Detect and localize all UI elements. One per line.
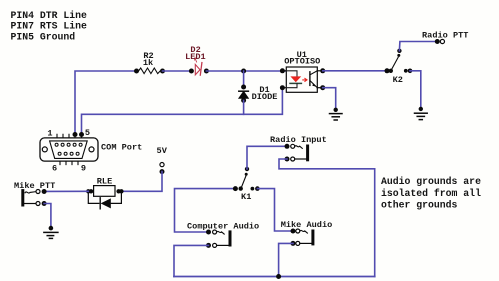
svg-text:1: 1 <box>47 129 52 139</box>
ground K2 <box>415 107 428 120</box>
svg-text:Radio PTT: Radio PTT <box>422 31 468 41</box>
relay contact K2 <box>385 49 413 85</box>
terminal Radio PTT <box>422 31 468 44</box>
optoisolator U1 <box>282 50 322 92</box>
terminal 5V <box>157 146 168 174</box>
relay contact K1 <box>233 167 260 202</box>
svg-text:LED1: LED1 <box>185 52 206 62</box>
wire D1 to RTS line <box>243 100 245 114</box>
wire U1 emitter to ground <box>323 88 336 110</box>
svg-text:K2: K2 <box>393 75 403 85</box>
jack Mike PTT <box>14 181 55 206</box>
svg-text:1k: 1k <box>143 58 153 68</box>
svg-text:K1: K1 <box>241 192 251 202</box>
wire U1 collector to K2 common <box>323 70 387 72</box>
wire K1 NC up to Radio Input tip <box>247 146 287 169</box>
svg-text:9: 9 <box>81 163 86 173</box>
svg-text:DIODE: DIODE <box>252 92 278 102</box>
svg-text:Radio Input: Radio Input <box>270 135 327 145</box>
wire Mike PTT sleeve to ground <box>44 204 51 229</box>
jack Mike Audio <box>281 220 333 246</box>
svg-text:PIN4 DTR Line: PIN4 DTR Line <box>11 10 88 21</box>
svg-text:COM Port: COM Port <box>101 142 142 152</box>
note PIN list <box>11 10 88 43</box>
wire Computer Audio sleeve down to rail <box>174 245 209 276</box>
relay coil RLE <box>86 176 124 208</box>
svg-text:Mike PTT: Mike PTT <box>14 181 55 191</box>
svg-text:5: 5 <box>85 128 90 138</box>
connector COM Port DB9 <box>40 128 142 173</box>
svg-text:Computer Audio: Computer Audio <box>187 222 259 232</box>
svg-text:RLE: RLE <box>97 176 112 186</box>
node U1 collector pin <box>320 68 325 73</box>
wire R2 to D2 <box>163 70 192 72</box>
wire K1 common loop to Computer Audio tip <box>175 189 236 232</box>
svg-text:Mike Audio: Mike Audio <box>281 220 333 230</box>
wire Mike Audio sleeve down to rail <box>279 243 293 276</box>
svg-text:6: 6 <box>52 163 57 173</box>
node COM pin5 <box>79 132 84 137</box>
node junction D1 top <box>241 69 246 74</box>
LED D2 <box>185 45 209 75</box>
svg-text:isolated from all: isolated from all <box>381 188 481 199</box>
wire 5V to RLE <box>121 172 162 192</box>
svg-text:PIN5 Ground: PIN5 Ground <box>11 31 76 42</box>
wire Radio Input sleeve right loop down <box>279 159 375 277</box>
svg-text:5V: 5V <box>157 146 168 156</box>
jack Radio Input <box>270 135 327 161</box>
svg-text:other grounds: other grounds <box>381 200 458 211</box>
ground Mike PTT <box>44 226 58 239</box>
svg-text:PIN7 RTS Line: PIN7 RTS Line <box>11 21 88 32</box>
wire Mike PTT tip to RLE <box>44 190 88 192</box>
wire bottom rail <box>174 276 375 278</box>
wire DTR: COM pin4 up and across to R2 <box>75 71 136 134</box>
wire K2 NC to Radio PTT <box>399 42 437 51</box>
node COM pin4 <box>73 132 78 137</box>
diode D1 <box>239 85 278 103</box>
wire D2 to U1 anode pin <box>206 70 286 72</box>
node rail junction <box>276 274 281 279</box>
wire RTS: COM pin5 up, across to U1 cathode <box>82 88 283 135</box>
ground U1 emitter <box>330 108 343 120</box>
jack Computer Audio <box>187 222 259 248</box>
svg-text:OPTOISO: OPTOISO <box>284 57 320 67</box>
node U1 cathode pin <box>280 85 285 90</box>
resistor R2 1k <box>134 51 165 73</box>
note Audio grounds <box>381 176 481 211</box>
wire K1 NO to Mike Audio tip <box>257 189 293 231</box>
node U1 anode pin <box>280 68 285 73</box>
wire K2 NO to ground <box>410 71 421 109</box>
svg-text:Audio grounds are: Audio grounds are <box>381 176 481 187</box>
wire D1 branch down <box>243 71 245 87</box>
node U1 emitter pin <box>320 85 325 90</box>
